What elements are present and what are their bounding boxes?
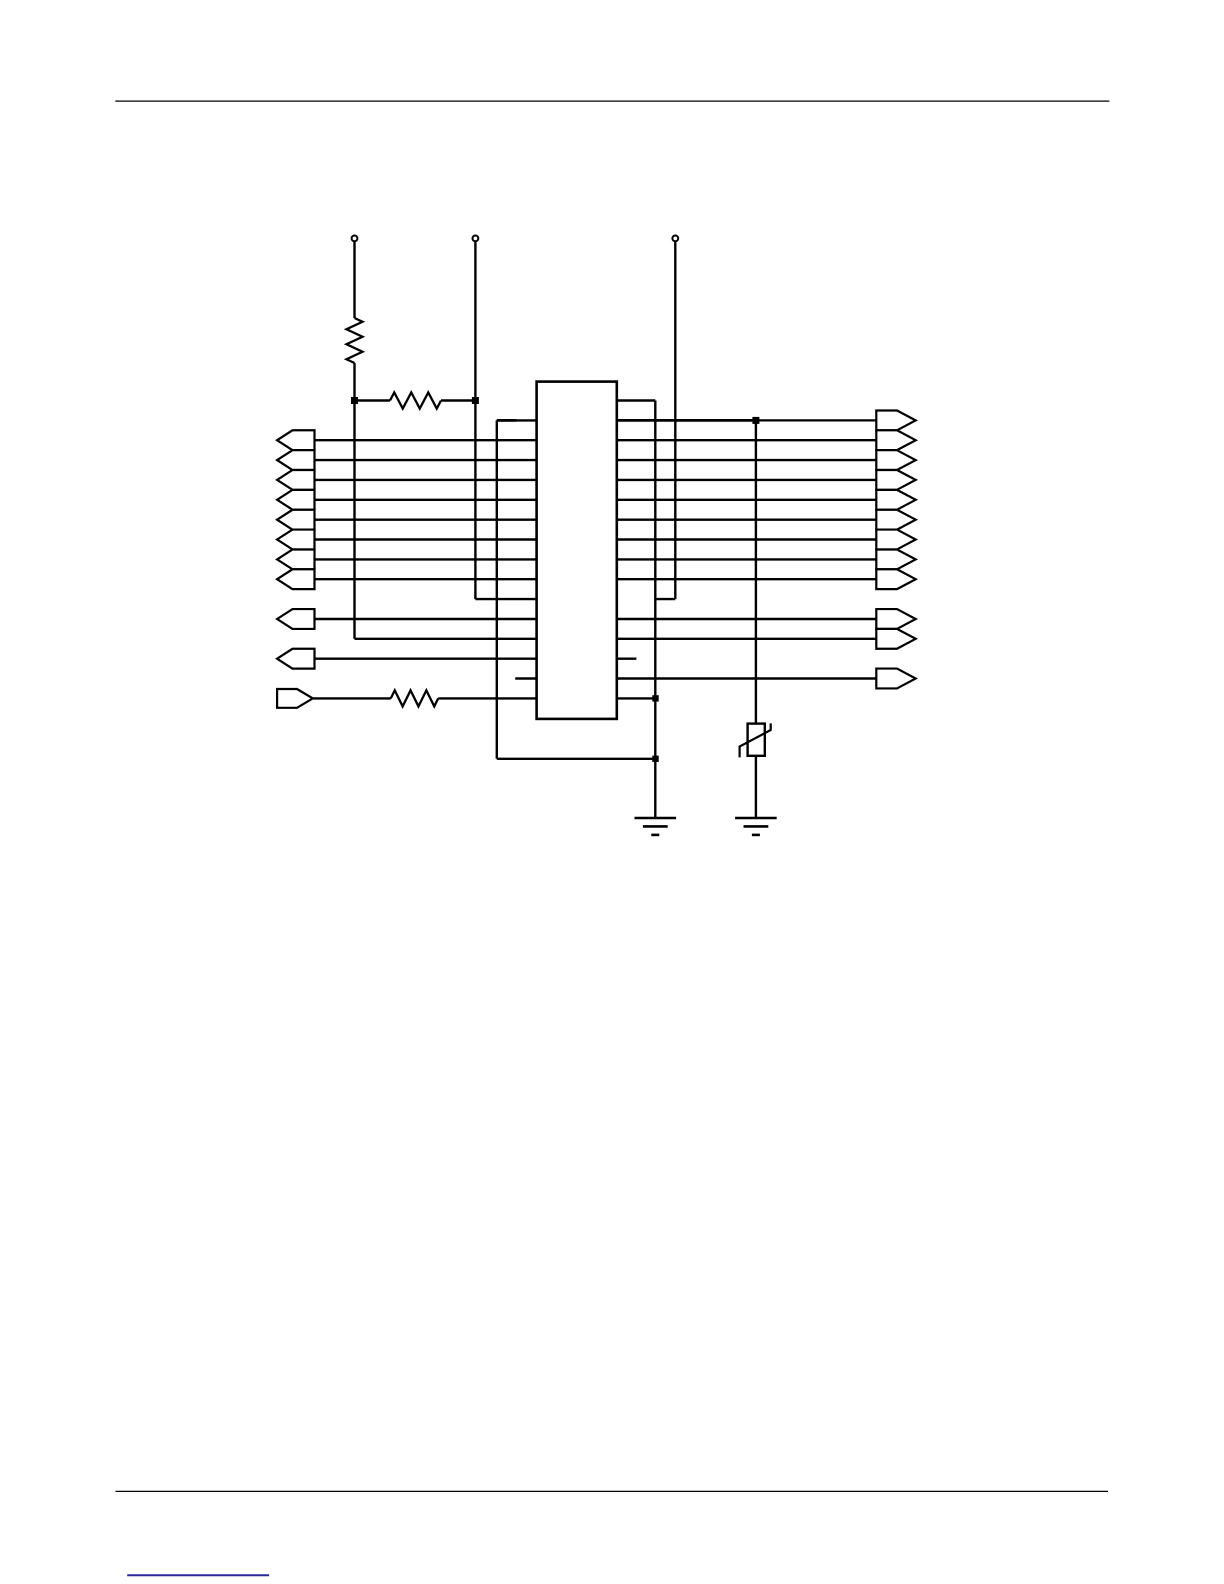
wire left ground bus top bbox=[497, 419, 537, 421]
input arrow AI1 (right-pointing) bbox=[277, 689, 313, 708]
junction J3 bbox=[752, 417, 759, 424]
junction J2 bbox=[472, 397, 479, 404]
wire T2 down to node J2 bbox=[474, 241, 476, 400]
wire left pin row 6 bbox=[315, 519, 537, 521]
junction J4 bbox=[652, 695, 658, 701]
bus arrow AL5 (left) bbox=[277, 510, 314, 530]
wire left pin row 5 bbox=[315, 499, 537, 501]
wire right pin row 5 bbox=[617, 499, 877, 501]
wire right pin row 1 bbox=[756, 419, 876, 421]
bus arrow AR3 (right) bbox=[876, 450, 915, 470]
terminal circle T1 (pull-up supply) bbox=[352, 236, 358, 242]
wire left pin row 3 bbox=[315, 459, 537, 461]
wire J1 to R2 bbox=[355, 399, 391, 401]
output arrow AR12 (right) bbox=[876, 669, 915, 689]
wire right pin row 8 bbox=[617, 558, 877, 560]
bus arrow AR4 (right) bbox=[876, 470, 915, 490]
ground GND2 bbox=[735, 817, 777, 820]
wire left pin row 2 bbox=[315, 439, 537, 441]
terminal circle T2 bbox=[473, 236, 479, 242]
wire input arrow to R3 bbox=[313, 697, 391, 699]
wire right pin row 14 bbox=[617, 677, 877, 679]
wire J1 down bbox=[353, 401, 355, 639]
bus arrow AR2 (right) bbox=[876, 430, 915, 450]
wire left ground bus top (heavy segment) bbox=[497, 419, 517, 422]
wire varistor to ground bbox=[755, 756, 757, 818]
wire J2 branch to IC pin row 10 bbox=[475, 598, 536, 600]
IC U1 bbox=[537, 382, 617, 719]
wire T3 down bbox=[674, 241, 676, 599]
wire right pin row 15 to bus bbox=[617, 697, 656, 699]
bus arrow AL6 (left) bbox=[277, 530, 314, 550]
bus arrow AL8 (left) bbox=[277, 569, 314, 589]
footer link underline bbox=[127, 1574, 269, 1576]
wire left pin row 7 bbox=[315, 538, 537, 540]
bus arrow AL2 (left) bbox=[277, 450, 314, 470]
varistor RV1 diagonal bbox=[740, 723, 771, 757]
right NC stub row 13 bbox=[617, 658, 637, 660]
varistor RV1 body bbox=[748, 724, 765, 756]
output arrow AL9 (left) bbox=[277, 609, 314, 629]
wire left ground bus vertical bbox=[496, 420, 498, 758]
wire left pin row 8 bbox=[315, 558, 537, 560]
wire T3 to right bus bbox=[655, 598, 675, 600]
bus arrow AR8 (right) bbox=[876, 549, 915, 569]
bus arrow AR5 (right) bbox=[876, 490, 915, 510]
output arrow AR11 (right) bbox=[876, 629, 915, 649]
wire R2 to J2 bbox=[441, 399, 475, 401]
wire left pin row 9 bbox=[315, 578, 537, 580]
bus arrow AR7 (right) bbox=[876, 530, 915, 550]
bus arrow AR6 (right) bbox=[876, 510, 915, 530]
wire J1 branch to IC pin row 12 bbox=[355, 638, 537, 640]
terminal circle T3 bbox=[672, 236, 678, 242]
left NC stub row 14 bbox=[515, 677, 536, 679]
bus arrow AR9 (right) bbox=[876, 569, 915, 589]
bus arrow AL7 (left) bbox=[277, 549, 314, 569]
output arrow AR10 (right) bbox=[876, 609, 915, 629]
wire right pin row 3 bbox=[617, 459, 877, 461]
wire right pin row 1 (heavy segment) bbox=[617, 419, 756, 422]
wire J2 down bbox=[474, 401, 476, 600]
wire left ground bus bottom bbox=[497, 758, 656, 760]
bus arrow AR1 (right) bbox=[876, 410, 915, 430]
wire R3 to IC bbox=[438, 697, 536, 699]
wire varistor branch down bbox=[755, 420, 757, 723]
resistor R2 (horizontal) bbox=[390, 393, 441, 409]
wire right pin row 12 bbox=[617, 638, 877, 640]
wire T1 down to resistor R1 bbox=[353, 241, 355, 318]
wire R1 to node J1 bbox=[353, 363, 355, 401]
wire right pin row 2 bbox=[617, 439, 877, 441]
footer rule bbox=[116, 1490, 1109, 1492]
junction J1 bbox=[351, 397, 358, 404]
bus arrow AL1 (left) bbox=[277, 430, 314, 450]
wire left pin row 4 bbox=[315, 479, 537, 481]
junction J5 bbox=[652, 756, 658, 762]
wire left pin row 13 bbox=[315, 658, 537, 660]
wire left pin row 11 bbox=[315, 618, 537, 620]
wire right pin row 11 bbox=[617, 618, 877, 620]
ground GND1 bbox=[635, 817, 677, 820]
wire right pin row 9 bbox=[617, 578, 877, 580]
wire right bus top bbox=[617, 399, 656, 402]
wire right pin row 6 bbox=[617, 519, 877, 521]
resistor R1 (vertical) bbox=[347, 318, 363, 363]
wire right pin row 4 bbox=[617, 479, 877, 481]
wire right pin row 7 bbox=[617, 538, 877, 540]
bus arrow AL3 (left) bbox=[277, 470, 314, 490]
header rule bbox=[115, 100, 1109, 102]
resistor R3 (horizontal) bbox=[391, 690, 438, 706]
wire right ground bus vertical bbox=[654, 401, 656, 818]
output arrow AL10 (left) bbox=[277, 649, 314, 669]
bus arrow AL4 (left) bbox=[277, 490, 314, 510]
